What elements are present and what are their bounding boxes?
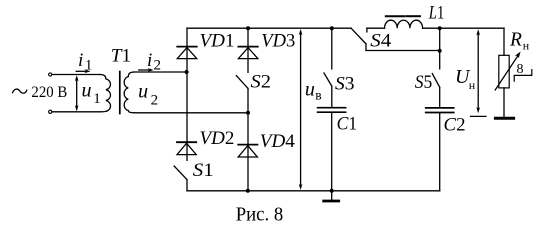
inductor L1 lead left — [367, 27, 385, 29]
svg-text:C1: C1 — [337, 114, 358, 135]
wire S4 bypass — [366, 50, 440, 52]
svg-text:8: 8 — [517, 62, 524, 77]
inductor L1 coil — [385, 20, 423, 28]
AC source terminal bottom — [49, 110, 52, 113]
ground bar at R_n — [495, 117, 513, 120]
wire R_n branch upper — [503, 28, 505, 55]
arrow u1 (double headed) — [76, 78, 78, 110]
svg-text:2: 2 — [151, 93, 159, 109]
wire primary bottom — [52, 111, 100, 113]
svg-text:220 В: 220 В — [31, 84, 67, 101]
wire secondary top — [134, 71, 186, 73]
wire top rail right section — [440, 27, 504, 29]
svg-text:в: в — [315, 88, 321, 103]
resistor R_n body — [499, 55, 509, 88]
node: top rail at S3 branch — [330, 26, 334, 30]
inductor L1 core dash 2 — [407, 15, 420, 17]
resistor R_n variable arrow — [495, 56, 518, 90]
node: top rail at VD3 leg — [246, 26, 250, 30]
wire S4 drop — [365, 44, 367, 51]
svg-text:VD1: VD1 — [200, 31, 235, 52]
svg-text:2: 2 — [154, 57, 162, 73]
arrow u_v (double headed, rectifier output voltage) — [300, 32, 302, 187]
svg-text:н: н — [523, 38, 530, 52]
svg-text:u: u — [138, 80, 148, 102]
svg-text:1: 1 — [93, 91, 101, 107]
switch S1 blade — [174, 166, 187, 180]
AC source terminal top — [49, 73, 52, 76]
svg-text:S3: S3 — [335, 74, 355, 95]
svg-text:Рис. 8: Рис. 8 — [236, 204, 284, 225]
inductor L1 core dash 1 — [386, 15, 405, 17]
svg-text:VD3: VD3 — [261, 31, 295, 52]
switch S2 blade — [236, 76, 248, 89]
svg-text:u: u — [82, 79, 92, 101]
transformer T1 secondary winding — [124, 72, 134, 113]
node: bottom rail at C1 leg — [330, 189, 334, 193]
svg-text:u: u — [305, 78, 315, 100]
wire S5 to C2 — [439, 87, 441, 107]
switch S4 blade — [351, 28, 366, 44]
wire top rail — [187, 27, 351, 29]
wire primary top — [52, 74, 100, 76]
wire S3 to C1 — [331, 86, 333, 107]
svg-text:R: R — [509, 30, 522, 51]
diode VD1 — [177, 46, 196, 48]
wire C1 to bottom rail — [331, 113, 333, 191]
svg-text:1: 1 — [85, 57, 93, 73]
wire right vertical upper (L1 right down to S5) — [439, 28, 441, 69]
node: bypass to right vertical — [438, 49, 442, 53]
wire R_n branch lower — [503, 88, 505, 117]
node: junction secondary top to left leg — [185, 70, 189, 74]
AC source tilde symbol — [13, 89, 27, 93]
svg-text:C2: C2 — [444, 115, 466, 136]
arrow i1 — [76, 70, 87, 72]
U_n reference tick — [471, 115, 487, 117]
ground stub at C1 leg — [331, 191, 333, 200]
svg-text:i: i — [78, 50, 83, 71]
wire secondary bottom (crosses left leg, joins right leg) — [134, 112, 248, 114]
svg-text:S2: S2 — [251, 72, 272, 93]
svg-text:VD4: VD4 — [260, 131, 296, 152]
svg-text:S1: S1 — [193, 160, 214, 181]
svg-text:i: i — [147, 50, 152, 71]
node: junction secondary bottom to right leg — [246, 111, 250, 115]
wire bridge right leg lower — [247, 88, 249, 190]
switch S3 blade — [324, 73, 332, 86]
resistor steps symbol — [514, 70, 532, 82]
capacitor C2 — [426, 107, 454, 109]
diode VD3 — [238, 46, 257, 48]
svg-text:T1: T1 — [111, 46, 131, 67]
transformer T1 core — [119, 72, 121, 114]
wire bridge left leg upper — [186, 28, 188, 160]
arrow i2 — [139, 69, 151, 71]
svg-text:S5: S5 — [415, 72, 433, 93]
wire bridge left leg lower — [186, 180, 188, 191]
capacitor C1 — [318, 107, 346, 109]
node: top rail at L1 right — [438, 26, 442, 30]
transformer T1 primary winding — [100, 75, 110, 112]
wire bridge right leg upper — [247, 28, 249, 72]
svg-text:L1: L1 — [428, 2, 444, 23]
ground bar — [324, 200, 339, 203]
inductor L1 lead right — [423, 27, 440, 29]
wire S3 branch upper — [331, 28, 333, 69]
svg-text:н: н — [469, 78, 476, 92]
svg-text:VD2: VD2 — [200, 128, 235, 149]
wire bottom rail — [187, 190, 440, 192]
wire C2 to bottom rail — [439, 113, 441, 191]
diode VD4 — [238, 144, 257, 146]
svg-text:S4: S4 — [370, 31, 392, 52]
switch S5 blade — [432, 74, 439, 88]
arrow U_n (double headed, load voltage) — [477, 32, 479, 111]
diode VD2 — [177, 141, 196, 143]
node: bottom rail at VD4 leg — [246, 189, 250, 193]
inductor L1 contact tick — [366, 28, 368, 32]
